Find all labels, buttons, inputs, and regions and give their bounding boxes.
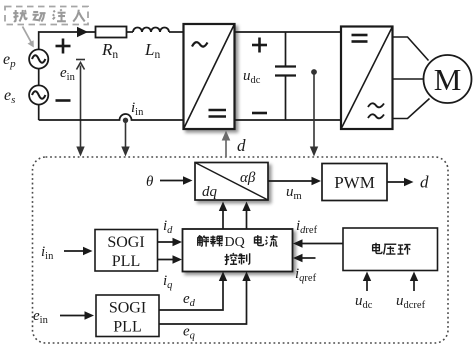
disturbance injection dashed box 扰动注入 xyxy=(5,7,88,25)
i_q output xyxy=(158,259,175,261)
u_dcref input xyxy=(413,278,415,292)
i_in node dot and tap xyxy=(123,118,128,123)
SOGI PLL 2 xyxy=(96,295,159,337)
PWM block xyxy=(322,164,387,201)
svg-text:PWM: PWM xyxy=(334,173,375,192)
d output wire xyxy=(387,181,406,183)
polarity - (dc link) xyxy=(252,112,267,115)
i_d output xyxy=(158,241,175,243)
DC bus wires xyxy=(235,31,342,33)
voltage loop block 电压环 xyxy=(343,228,438,271)
motor M xyxy=(424,55,472,103)
i_dref input from voltage loop xyxy=(300,243,343,245)
svg-text:SOGI: SOGI xyxy=(109,300,146,317)
motor phase wires xyxy=(393,37,430,119)
AC source e_p xyxy=(29,49,48,68)
polarity + (source side) xyxy=(56,39,71,54)
u_dc feedback input xyxy=(366,278,368,292)
e_in probe xyxy=(76,60,85,150)
svg-text:PLL: PLL xyxy=(113,319,141,336)
rectifier U1 (~/=) xyxy=(184,24,235,129)
d gate drive arrow into rectifier xyxy=(225,136,227,157)
control dashed box xyxy=(33,157,449,343)
e_d wire xyxy=(159,278,223,311)
svg-text:αβ: αβ xyxy=(240,170,256,186)
outputs from DQ control up to dq block xyxy=(222,208,224,230)
e_q wire xyxy=(159,278,247,325)
current direction arrow on top rail xyxy=(77,27,88,37)
AC source e_s xyxy=(29,85,48,104)
svg-text:dq: dq xyxy=(202,184,218,200)
polarity - (source side) xyxy=(56,99,71,102)
svg-text:SOGI: SOGI xyxy=(107,234,144,251)
resistor R_n xyxy=(96,27,127,38)
wire: source branch and top rail xyxy=(39,32,96,120)
inductor L_n xyxy=(133,28,169,33)
u_dc tap node and arrow xyxy=(311,69,317,75)
svg-text:θ: θ xyxy=(146,174,154,190)
svg-text:d: d xyxy=(237,136,246,155)
svg-text:M: M xyxy=(434,62,462,97)
SOGI PLL 1 xyxy=(95,230,158,272)
svg-text:d: d xyxy=(420,173,429,192)
wire R to L xyxy=(127,31,134,33)
inverter U2 (=/≈) xyxy=(341,27,393,130)
bottom rail with i_in hop xyxy=(39,114,184,120)
wire L to rectifier xyxy=(169,31,184,33)
polarity + (dc link) xyxy=(252,38,267,53)
dq/alpha-beta transform block xyxy=(195,163,268,201)
capacitor C1 xyxy=(275,32,296,120)
svg-text:PLL: PLL xyxy=(112,253,140,270)
decoupled DQ current control block 解耦DQ电流控制 xyxy=(183,229,293,272)
disturbance injection arrow xyxy=(23,27,34,48)
svg-text:DQ: DQ xyxy=(225,235,245,250)
u_m wire to PWM xyxy=(268,180,313,182)
i_qref input stub xyxy=(301,257,316,259)
